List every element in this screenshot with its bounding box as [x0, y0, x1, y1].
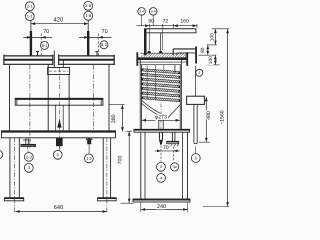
- flange gap stud A: [53, 51, 55, 68]
- right suspension rod: [87, 20, 89, 31]
- svg-text:3a: 3a: [173, 165, 177, 169]
- machine base plate: [2, 131, 116, 138]
- svg-text:72: 72: [163, 19, 169, 25]
- bolt on right flange: [96, 52, 98, 56]
- left flange left end cap: [3, 55, 5, 65]
- duct end plate: [195, 47, 197, 64]
- flange left cap: [136, 52, 138, 66]
- left flange plate: [4, 55, 54, 57]
- right wall: [108, 65, 110, 131]
- shaft nozzle: [158, 132, 160, 140]
- stand left inner: [144, 132, 146, 199]
- left chamber centerline: [29, 65, 31, 149]
- svg-text:2-3: 2-3: [26, 154, 33, 159]
- flange gap stud B: [62, 60, 64, 68]
- balloon 1-1: [25, 12, 34, 21]
- shaft nozzle centerline: [160, 145, 162, 161]
- dim 480 bottom tick: [199, 141, 210, 143]
- svg-text:φ273: φ273: [155, 115, 167, 121]
- svg-text:380: 380: [111, 114, 117, 123]
- dome bolt 1: [147, 51, 151, 54]
- right leg outer: [110, 138, 112, 198]
- right flange right end cap: [113, 55, 115, 65]
- svg-text:2-1: 2-1: [27, 4, 34, 9]
- extension bolt1: [148, 28, 150, 50]
- column right wall: [68, 75, 70, 131]
- svg-text:240: 240: [157, 204, 166, 210]
- hanger rod lower: [193, 104, 195, 143]
- inner wall: [47, 65, 49, 131]
- balloon 5 rv: [191, 154, 200, 163]
- left leg inner: [18, 138, 20, 198]
- balloon 5: [53, 150, 62, 159]
- tick a: [212, 28, 230, 30]
- left leg outer: [9, 138, 11, 198]
- dim 70 left line: [23, 36, 52, 38]
- svg-text:70: 70: [163, 145, 169, 151]
- right hole centerline: [97, 34, 99, 56]
- svg-text:~1560: ~1560: [220, 110, 226, 124]
- svg-text:1-8: 1-8: [85, 13, 92, 18]
- balloon 1-8: [84, 11, 93, 20]
- balloon 1-2: [85, 154, 94, 163]
- dim 80: [207, 45, 209, 55]
- dim 420 line: [31, 23, 88, 25]
- balloon 2-1: [25, 2, 34, 11]
- edge artifact balloon: [0, 150, 3, 158]
- svg-text:70: 70: [43, 29, 49, 35]
- vessel left wall: [139, 60, 141, 129]
- outlet stub: [158, 117, 160, 129]
- duct lower stub: [174, 65, 176, 73]
- hanger weight box: [187, 96, 205, 104]
- shaft inner left: [55, 105, 57, 131]
- svg-text:3-4: 3-4: [139, 10, 144, 14]
- vessel flange bar: [137, 57, 188, 60]
- dim 70 right line: [79, 36, 112, 38]
- dim chain line: [137, 25, 197, 27]
- bearing housing box: [48, 68, 70, 75]
- tick d: [208, 64, 220, 66]
- flange right cap: [186, 52, 188, 66]
- right flange plate: [58, 55, 114, 57]
- dim 380 line: [121, 105, 123, 132]
- dim 480 line: [205, 97, 207, 142]
- dim 1560 bottom tick: [203, 206, 230, 208]
- svg-text:420: 420: [53, 16, 64, 23]
- support bracket: [25, 138, 27, 145]
- svg-text:100: 100: [208, 56, 214, 64]
- svg-text:8-3: 8-3: [101, 42, 108, 47]
- shaft lower end: [56, 138, 63, 146]
- dim 700 top tick: [126, 130, 133, 132]
- left leg centerline: [14, 138, 16, 214]
- balloon 8-3: [100, 41, 108, 49]
- valve fitting: [171, 132, 173, 141]
- funnel cone: [141, 100, 167, 116]
- balloon 3-4: [138, 8, 146, 16]
- right flange left end cap: [58, 55, 60, 65]
- dim 1560 line: [227, 29, 229, 207]
- svg-text:70: 70: [102, 29, 108, 35]
- right chamber centerline: [93, 65, 95, 131]
- dim 700 bottom tick: [121, 202, 134, 204]
- stand right inner: [182, 132, 184, 199]
- dim 70 line rv: [155, 150, 180, 152]
- dim 700 line: [128, 131, 130, 203]
- drain nozzle: [86, 138, 92, 140]
- bolt on left flange: [37, 52, 39, 56]
- hanger rod upper: [195, 66, 197, 96]
- dip tube: [146, 65, 148, 99]
- left suspension rod: [30, 21, 32, 31]
- dim 100 upper: [214, 29, 216, 45]
- svg-text:8-1: 8-1: [42, 43, 49, 48]
- right foot: [98, 198, 117, 201]
- right leg inner: [102, 138, 104, 198]
- left hole centerline: [40, 34, 42, 56]
- dim 100 lower: [214, 55, 216, 65]
- stand bottom plate: [133, 199, 190, 202]
- mid plate: [15, 98, 103, 105]
- spindle arrow: [57, 119, 61, 128]
- balloon 8-1: [41, 41, 49, 49]
- mid plate left cap: [16, 98, 18, 105]
- dim phi273 line: [142, 119, 180, 121]
- vessel right wall: [179, 65, 181, 130]
- stand left outer: [140, 132, 142, 199]
- valve centerline: [173, 147, 175, 162]
- dim 380 top tick: [109, 104, 124, 106]
- svg-text:1-2: 1-2: [86, 156, 93, 161]
- flange lower line 2: [140, 64, 182, 66]
- svg-text:700: 700: [118, 156, 124, 165]
- left flange right end cap: [52, 55, 54, 65]
- balloon 3: [24, 163, 33, 172]
- svg-text:80: 80: [200, 47, 206, 53]
- dome bolt 2: [159, 51, 163, 54]
- stand right outer: [187, 132, 189, 199]
- dim 240 line: [141, 209, 188, 211]
- svg-text:160: 160: [180, 19, 189, 25]
- tick b: [207, 44, 217, 46]
- helical coil: [142, 69, 180, 72]
- balloon 4 rv: [157, 174, 166, 183]
- svg-text:480: 480: [206, 111, 212, 120]
- outlet duct: [173, 48, 195, 50]
- bracket leader: [27, 147, 28, 152]
- svg-text:640: 640: [54, 205, 64, 211]
- balloon 6-4: [149, 8, 157, 16]
- dim 240 ext right: [187, 202, 189, 212]
- balloon 3a rv: [171, 163, 179, 171]
- balloon 2-8: [84, 1, 93, 10]
- extension bolt2: [162, 28, 164, 50]
- svg-text:1-1: 1-1: [27, 14, 34, 19]
- svg-text:2-8: 2-8: [85, 3, 92, 8]
- balloon 3 rv: [157, 162, 166, 171]
- inlet box left wall: [144, 29, 147, 55]
- dim 240 ext left: [140, 202, 142, 212]
- left foot: [4, 198, 23, 201]
- flange lower line 1: [137, 61, 188, 63]
- bracket extension: [188, 52, 195, 54]
- svg-text:100: 100: [209, 33, 215, 41]
- inlet box right wall: [160, 33, 162, 51]
- dim 640 line: [15, 211, 107, 213]
- balloon 2-3: [24, 153, 33, 162]
- vessel axis: [160, 104, 162, 134]
- shaft inner right: [62, 105, 64, 131]
- mid plate right cap: [100, 98, 102, 105]
- vessel bottom plate: [134, 129, 190, 132]
- svg-text:6-4: 6-4: [151, 10, 156, 14]
- balloon 2 rv: [196, 69, 203, 76]
- bracket plate hatched: [141, 53, 145, 57]
- head cover plate: [144, 28, 196, 30]
- right leg centerline: [106, 138, 108, 214]
- left wall: [9, 65, 11, 131]
- tick c: [199, 54, 217, 56]
- machine axis: [58, 68, 60, 149]
- svg-text:2: 2: [198, 71, 200, 75]
